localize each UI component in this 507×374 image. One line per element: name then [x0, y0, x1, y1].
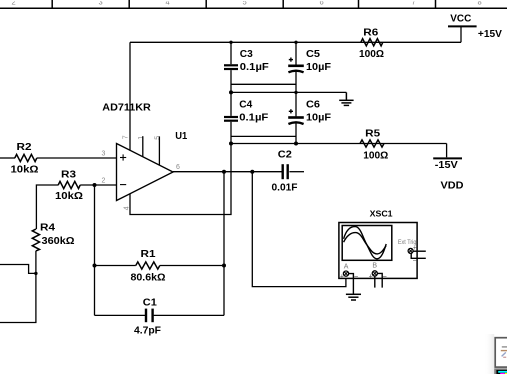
wire: op-amp pin 7 up to V+ rail — [129, 42, 131, 150]
wire: op-amp pin 4 to V- rail — [130, 144, 231, 215]
svg-text:3: 3 — [102, 150, 106, 157]
op-amp top pin 1 stub — [142, 136, 144, 157]
svg-text:C1: C1 — [143, 296, 157, 308]
svg-text:AD711KR: AD711KR — [102, 102, 151, 114]
scope trace A (large sine) — [344, 227, 387, 259]
wire: channel B minus stub — [377, 273, 382, 287]
op-amp top pin 5 stub — [158, 136, 160, 165]
wire: R3 right to op-amp pin 2 — [80, 184, 116, 186]
svg-text:XSC1: XSC1 — [370, 208, 393, 218]
svg-text:C5: C5 — [306, 48, 320, 60]
svg-text:+: + — [340, 273, 344, 280]
capacitor C5 (polarized) — [288, 66, 304, 73]
ground symbol (bypass) — [339, 92, 353, 105]
wire: V- rail — [231, 143, 447, 145]
resistor R4 — [32, 229, 39, 251]
scope trace B (small sine) — [344, 233, 386, 254]
svg-text:R5: R5 — [365, 128, 380, 140]
svg-text:2: 2 — [102, 178, 106, 185]
junction: R3 output / feedback node — [93, 183, 97, 187]
resistor R3 — [58, 181, 80, 188]
wire: channel B plus stub — [374, 276, 376, 288]
svg-text:10µF: 10µF — [306, 61, 332, 73]
resistor R1 — [136, 262, 160, 269]
wire: input net to R2 left — [0, 157, 15, 159]
svg-text:100Ω: 100Ω — [363, 149, 388, 161]
wire: C6 top lead — [295, 92, 297, 116]
wire: output to scope channel A — [252, 172, 346, 287]
wire: feedback left column — [94, 185, 96, 315]
capacitor C1 — [146, 309, 153, 323]
svg-text:R2: R2 — [17, 141, 32, 153]
wire: C4 bottom lead — [230, 122, 232, 144]
tooltip shadow — [484, 334, 494, 374]
svg-text:0.1µF: 0.1µF — [240, 61, 270, 73]
junction: mid rail left — [229, 90, 233, 94]
wire: left step wire to R4 bottom — [0, 265, 36, 274]
svg-text:C3: C3 — [240, 48, 253, 60]
-15V power symbol bar — [433, 157, 462, 159]
junction: output to scope drop — [250, 170, 254, 174]
wire: feedback right column — [223, 172, 225, 316]
capacitor C6 (polarized) — [288, 118, 304, 125]
wire: R4 bottom node — [0, 251, 36, 323]
wire: C2 right stub — [289, 171, 304, 173]
oscilloscope XSC1 body — [339, 223, 417, 279]
wire: R3 left corner down to R4 top — [36, 185, 58, 229]
svg-text:B: B — [372, 263, 377, 270]
polarity plus (C6) — [289, 109, 293, 113]
svg-text:U1: U1 — [175, 131, 187, 142]
svg-text:C2: C2 — [278, 149, 292, 161]
svg-text:0.1µF: 0.1µF — [239, 112, 269, 124]
op-amp plus input mark — [120, 154, 126, 160]
svg-text:80.6kΩ: 80.6kΩ — [131, 271, 166, 283]
junction: step wire on R4 column — [34, 272, 37, 275]
junction: output to feedback column — [222, 170, 226, 174]
svg-text:R4: R4 — [40, 221, 55, 233]
svg-text:−: − — [383, 272, 388, 281]
svg-text:C6: C6 — [306, 99, 320, 111]
svg-text:5: 5 — [154, 136, 161, 140]
wire: C3 bottom lead — [230, 70, 232, 92]
wire: output net — [173, 171, 282, 173]
wire: R1 left lead — [95, 265, 136, 267]
svg-text:10kΩ: 10kΩ — [55, 190, 83, 202]
oscilloscope screen — [342, 226, 392, 261]
junction: R1 left on feedback column — [93, 264, 97, 268]
svg-text:+: + — [369, 274, 373, 281]
junction: V- rail left — [229, 142, 233, 146]
svg-text:1: 1 — [138, 136, 145, 140]
svg-text:7: 7 — [122, 135, 129, 139]
capacitor C2 — [283, 164, 288, 179]
svg-text:+15V: +15V — [478, 28, 502, 40]
wire: C1 right lead — [154, 314, 224, 316]
wire: C3 top lead — [230, 42, 232, 64]
tooltip glyph strokes — [501, 347, 507, 357]
wire: V- rail drop to -15V — [446, 144, 448, 158]
svg-text:−: − — [354, 272, 359, 281]
wire: C3-C5 mid tie — [231, 83, 296, 85]
junction: mid rail at C6 column — [294, 91, 297, 94]
G_RULER — [12, 0, 482, 6]
svg-text:100Ω: 100Ω — [359, 48, 384, 60]
wire: C4 top lead — [230, 92, 232, 116]
wire: C5 bottom lead — [295, 72, 297, 93]
svg-text:-15V: -15V — [435, 159, 458, 171]
svg-text:0.01F: 0.01F — [272, 182, 299, 194]
svg-text:R6: R6 — [363, 27, 378, 39]
wire: C6 bottom lead — [295, 123, 297, 143]
wire: C1 left lead — [95, 314, 146, 316]
tooltip white box — [495, 338, 507, 367]
capacitor C3 — [224, 65, 238, 69]
VCC power symbol — [448, 26, 477, 42]
wire: mid ground rail — [231, 91, 346, 93]
ground symbol (scope) — [346, 294, 361, 300]
channel B terminal — [372, 271, 377, 276]
wire: V+ rail (top) — [130, 41, 461, 43]
wire: channel A minus to ground — [349, 274, 354, 295]
svg-text:C4: C4 — [239, 99, 252, 111]
svg-text:A: A — [344, 263, 349, 270]
junction: C5 on V+ rail — [294, 41, 297, 44]
svg-text:R3: R3 — [61, 169, 76, 181]
resistor R5 (V- rail) — [360, 140, 384, 147]
svg-text:4.7pF: 4.7pF — [134, 325, 162, 337]
resistor R6 — [361, 39, 383, 46]
junction: C3 on V+ rail — [229, 41, 232, 44]
wire: R2 right to op-amp pin 3 — [37, 157, 117, 159]
wire: R1 right lead — [160, 265, 224, 267]
svg-text:R1: R1 — [141, 248, 156, 260]
channel A terminal — [343, 271, 348, 276]
svg-text:VDD: VDD — [441, 180, 464, 192]
svg-text:360kΩ: 360kΩ — [42, 235, 75, 247]
svg-text:6: 6 — [176, 164, 180, 171]
wire: C4-C6 bottom tie — [231, 135, 296, 137]
junction: V- rail at C6 column — [294, 142, 298, 146]
svg-text:−: − — [413, 256, 418, 265]
wire: ext trig stub 1 — [413, 250, 426, 252]
wire: ext trig stub 2 — [411, 253, 426, 258]
wire: C5 top lead — [295, 42, 297, 64]
svg-text:10µF: 10µF — [306, 112, 332, 124]
op-amp U1 — [117, 144, 174, 201]
svg-text:VCC: VCC — [450, 13, 471, 25]
taskbar colorful icon — [494, 368, 507, 374]
svg-text:10kΩ: 10kΩ — [11, 164, 39, 176]
ext trig terminal — [408, 248, 413, 253]
capacitor C4 — [224, 117, 238, 121]
polarity plus (C5) — [289, 58, 293, 62]
junction: R1 right on feedback column — [222, 264, 226, 268]
op-amp minus input mark — [120, 184, 126, 186]
resistor R2 — [15, 154, 37, 161]
